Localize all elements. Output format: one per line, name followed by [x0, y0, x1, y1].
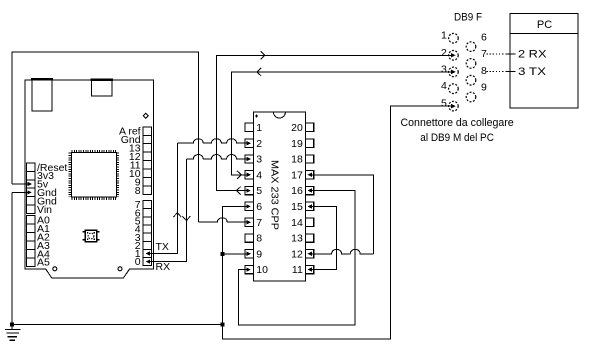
- svg-text:Connettore da collegare: Connettore da collegare: [401, 117, 514, 129]
- Arduino pin 12 (right header): [129, 151, 151, 163]
- MAX233 pin 19: [291, 138, 314, 150]
- svg-text:RX: RX: [156, 261, 171, 273]
- note: Connettore da collegare al DB9 M del PC: [401, 117, 514, 144]
- svg-text:3: 3: [441, 63, 447, 75]
- mounting hole (diamond): [143, 113, 148, 118]
- DB9 pin 3: [441, 63, 458, 76]
- Arduino pin A3: [27, 240, 51, 252]
- svg-text:DB9 F: DB9 F: [454, 12, 482, 24]
- MAX233 pin 1: [245, 122, 262, 134]
- wire: MAX233 pin17 to pin12: [314, 175, 374, 254]
- microcontroller U1 (QFP): [70, 151, 118, 198]
- svg-text:14: 14: [291, 217, 303, 229]
- svg-text:2 RX: 2 RX: [518, 49, 547, 61]
- Arduino pin Gnd (left header): [27, 195, 58, 207]
- Arduino pin 6 (digital): [135, 207, 152, 219]
- MAX233 pin 20: [291, 122, 314, 134]
- svg-text:4: 4: [256, 169, 262, 181]
- Arduino pin Gnd (left header): [27, 187, 58, 199]
- dotted leader to 3 TX: [487, 71, 504, 73]
- svg-text:7: 7: [256, 217, 262, 229]
- Arduino pin 1 (digital): [135, 248, 152, 260]
- svg-text:1: 1: [256, 122, 262, 134]
- DB9 pin 6: [466, 31, 487, 51]
- DB9 pin 4: [441, 80, 458, 93]
- Arduino pin 5 (digital): [135, 215, 152, 227]
- wire GND net: junction up to MAX233 pin6 and pin9: [222, 206, 245, 324]
- wire RX net: MAX233 pin3 to Arduino pin0: [146, 155, 245, 264]
- MAX233 pin 5: [243, 185, 262, 197]
- MAX233 pin 7: [243, 217, 262, 229]
- svg-text:16: 16: [291, 185, 303, 197]
- MAX233 pin 18: [291, 154, 314, 166]
- svg-text:5: 5: [256, 185, 262, 197]
- DB9 pin 9: [466, 82, 487, 102]
- wire: MAX233 pin5 to DB9 pin2 (RX of PC): [216, 51, 450, 194]
- Arduino pin 8 (right header): [135, 185, 152, 197]
- svg-text:al DB9 M del PC: al DB9 M del PC: [420, 132, 494, 144]
- svg-text:MAX 233 CPP: MAX 233 CPP: [269, 160, 281, 230]
- svg-text:13: 13: [291, 233, 303, 245]
- op-amp U2 MAX233 body: [253, 112, 305, 281]
- DB9 pin 1: [441, 30, 458, 43]
- Arduino pin A0: [27, 214, 51, 226]
- power jack connector: [91, 79, 113, 96]
- svg-text:TX: TX: [156, 241, 169, 253]
- MAX233 pin 12: [291, 248, 316, 260]
- svg-text:9: 9: [481, 82, 487, 94]
- svg-text:1: 1: [441, 30, 447, 42]
- svg-text:5: 5: [441, 98, 447, 110]
- MAX233 pin 3: [243, 154, 262, 166]
- svg-text:8: 8: [256, 233, 262, 245]
- Arduino pin 9 (right header): [135, 176, 152, 188]
- svg-text:11: 11: [292, 264, 303, 276]
- mounting hole left: [53, 267, 57, 271]
- MAX233 pin 9: [243, 248, 262, 260]
- svg-text:3: 3: [256, 154, 262, 166]
- svg-text:12: 12: [291, 248, 303, 260]
- Arduino pin A1: [27, 223, 51, 235]
- reset button S1: [83, 230, 100, 241]
- svg-text:4: 4: [441, 80, 447, 92]
- svg-text:A5: A5: [37, 257, 50, 269]
- Arduino pin Gnd (right header): [121, 134, 152, 146]
- PC port label 3 TX: [506, 66, 547, 78]
- PC port label 2 RX: [506, 49, 548, 61]
- MAX233 pin 16: [291, 185, 316, 197]
- svg-text:7: 7: [481, 48, 487, 60]
- Arduino pin A5: [27, 257, 51, 269]
- Arduino pin 2 (digital): [135, 240, 152, 252]
- Arduino pin 4 (digital): [135, 224, 152, 236]
- MAX233 pin 17: [291, 169, 316, 181]
- svg-text:2: 2: [441, 47, 447, 59]
- Arduino pin 10 (right header): [129, 168, 151, 180]
- Arduino pin Vin (left header): [27, 204, 53, 216]
- MAX233 pin 6: [243, 201, 262, 213]
- DB9 pin 7: [466, 48, 487, 68]
- svg-text:2: 2: [256, 138, 262, 150]
- mounting hole right: [118, 267, 122, 271]
- svg-text:6: 6: [256, 201, 262, 213]
- DB9 pin 5: [441, 98, 458, 111]
- svg-text:19: 19: [291, 138, 303, 150]
- svg-text:17: 17: [291, 169, 303, 181]
- Arduino board outline: [25, 80, 154, 278]
- DB9 pin 2: [441, 47, 458, 60]
- wire: MAX233 pin15 to pin11: [314, 206, 337, 269]
- svg-text:15: 15: [291, 201, 303, 213]
- svg-text:0: 0: [135, 256, 141, 268]
- Arduino pin A4: [27, 248, 51, 260]
- dotted leader to 2 RX: [487, 53, 504, 55]
- wire GND net: Arduino Gnd pin down to ground rail: [12, 190, 32, 324]
- svg-text:20: 20: [291, 122, 303, 134]
- Arduino pin 3v3 (left header): [27, 170, 55, 182]
- wire ground rail: ground symbol to junction: [12, 324, 222, 326]
- wire TX net: Arduino pin1 to MAX233 pin2: [146, 139, 245, 256]
- Arduino pin A ref (right header): [119, 126, 151, 138]
- svg-text:PC: PC: [537, 19, 552, 31]
- MAX233 pin 10: [243, 264, 268, 276]
- svg-text:9: 9: [256, 248, 262, 260]
- junction ground rail: [221, 323, 224, 326]
- svg-text:18: 18: [291, 154, 303, 166]
- svg-text:8: 8: [135, 185, 141, 197]
- MAX233 pin 11: [292, 264, 316, 276]
- junction at MAX233 pin9 wire: [221, 252, 224, 255]
- Arduino pin 13 (right header): [129, 143, 151, 155]
- wire: MAX233 pin10 to pin16: [239, 191, 356, 326]
- MAX233 pin 14: [291, 217, 314, 229]
- ground symbol: [5, 325, 20, 341]
- DB9 pin 8: [466, 65, 487, 85]
- wire signal ground: junction to DB9 pin5: [222, 106, 450, 339]
- USB connector: [31, 79, 53, 112]
- Arduino pin 3 (digital): [135, 232, 152, 244]
- MAX233 pin 13: [291, 233, 314, 245]
- wire: DB9 pin3 (TX of PC) to MAX233 pin4: [232, 68, 450, 179]
- PC box: [510, 14, 578, 109]
- svg-text:8: 8: [481, 65, 487, 77]
- wire 5V net: Arduino 5v pin to MAX233 pin7: [12, 52, 245, 222]
- junction at ground symbol: [11, 323, 14, 326]
- Arduino pin 11 (right header): [130, 159, 152, 171]
- svg-text:10: 10: [256, 264, 268, 276]
- Arduino pin 0 (digital): [135, 256, 152, 268]
- svg-text:6: 6: [481, 31, 487, 43]
- Arduino pin A2: [27, 231, 51, 243]
- Arduino pin 5v (left header): [27, 179, 49, 191]
- MAX233 pin 2: [243, 138, 262, 150]
- MAX233 pin 4: [243, 169, 262, 181]
- Arduino pin /Reset (left header): [27, 162, 68, 174]
- MAX233 pin 15: [291, 201, 316, 213]
- Arduino pin 7 (digital): [135, 199, 152, 211]
- svg-text:3 TX: 3 TX: [518, 66, 547, 78]
- MAX233 pin 8: [245, 233, 262, 245]
